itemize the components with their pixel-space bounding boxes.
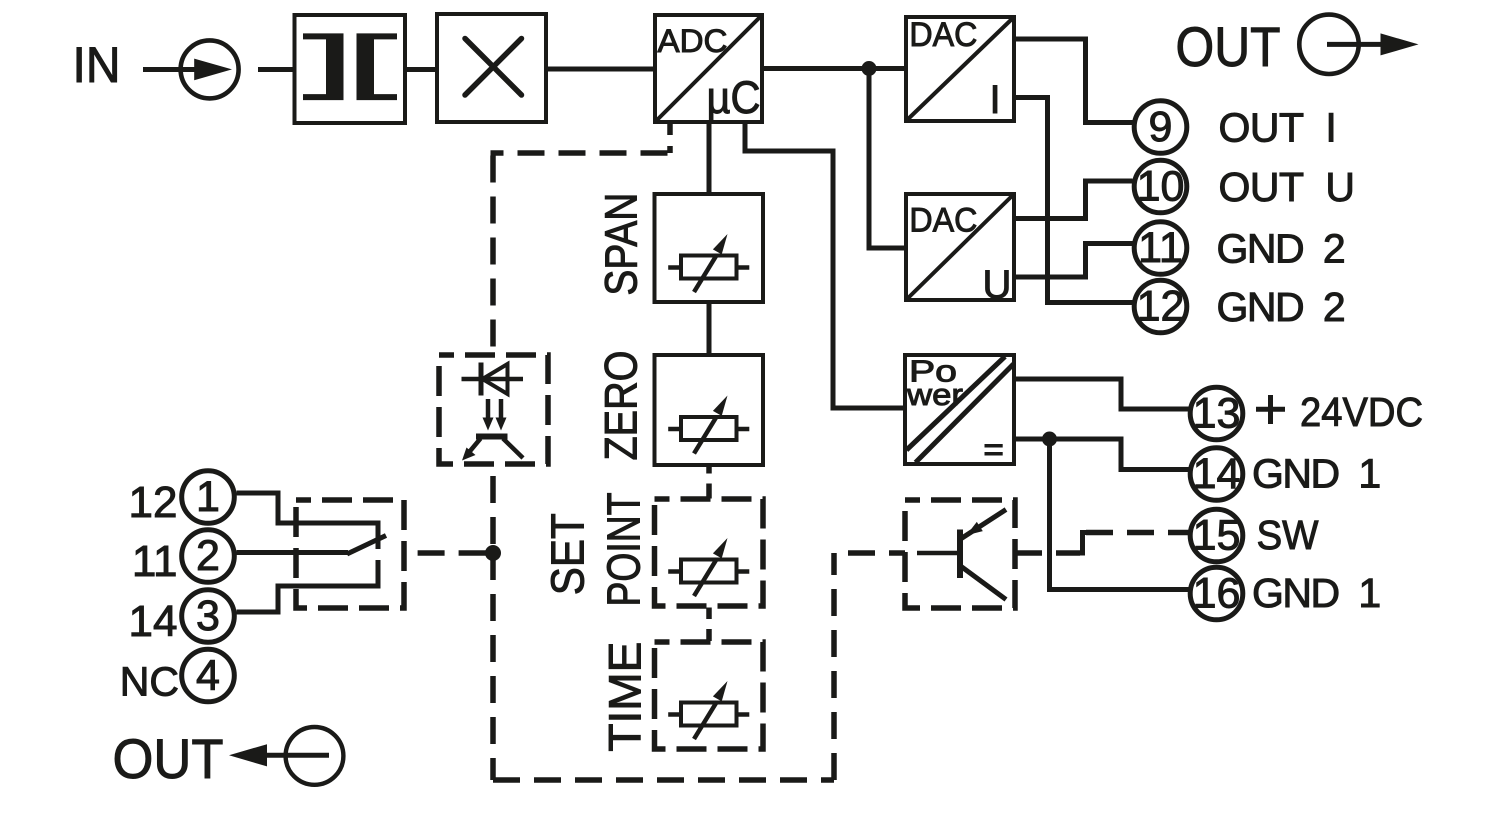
svg-text:OUT I: OUT I	[1219, 105, 1337, 151]
svg-text:DAC: DAC	[909, 202, 977, 240]
svg-text:POINT: POINT	[597, 493, 649, 607]
label TIME	[599, 642, 650, 752]
svg-text:NC: NC	[120, 659, 179, 705]
DAC I block	[906, 16, 1014, 122]
optocoupler	[439, 355, 548, 464]
svg-text:ADC: ADC	[658, 23, 728, 59]
svg-text:1: 1	[196, 473, 220, 521]
wire SET POINT to TIME (dashed)	[706, 608, 712, 643]
label GND 1 (14)	[1252, 451, 1380, 497]
label 14 for terminal 3	[129, 597, 178, 646]
label NC for terminal 4	[120, 659, 179, 705]
svg-text:ZERO: ZERO	[595, 351, 646, 461]
svg-text:U: U	[983, 263, 1012, 307]
dashed wire relay to junction B	[404, 550, 493, 556]
wire ADC to DAC I	[762, 66, 906, 71]
terminal 14	[1190, 448, 1243, 501]
relay output symbol (OUT bottom)	[229, 727, 343, 785]
label 24VDC	[1300, 389, 1423, 435]
svg-text:12: 12	[1137, 283, 1185, 331]
terminal 1	[182, 471, 235, 524]
label 11 for terminal 2	[132, 537, 178, 586]
terminal 4	[182, 649, 235, 702]
svg-text:wer: wer	[906, 377, 963, 412]
wire power to terminal 14	[1014, 439, 1189, 470]
svg-text:15: 15	[1193, 512, 1241, 560]
svg-text:SPAN: SPAN	[595, 193, 646, 296]
label POINT	[597, 493, 649, 607]
wire DAC U out to terminal 10	[1014, 181, 1133, 219]
terminal 15	[1190, 509, 1243, 562]
wire DAC I out to terminal 9	[1014, 39, 1133, 123]
label 12 for terminal 1	[129, 478, 178, 527]
label SPAN	[595, 193, 646, 296]
potentiometer SPAN block	[655, 194, 764, 302]
wire terminal 2 to relay	[237, 550, 313, 555]
dashed wire transistor to SW elbow	[1015, 550, 1080, 556]
dashed wire down to optocoupler	[490, 151, 496, 356]
svg-text:TIME: TIME	[599, 642, 650, 752]
dashed wire junction B down	[490, 553, 496, 780]
svg-text:10: 10	[1137, 163, 1185, 211]
wire node C to terminal 16	[1050, 439, 1189, 590]
wire node A to DAC U	[869, 69, 906, 249]
wire ADC to SPAN	[707, 122, 712, 195]
dashed wire optocoupler to junction	[490, 464, 496, 551]
svg-text:µC: µC	[707, 72, 761, 123]
svg-text:9: 9	[1149, 103, 1173, 151]
svg-text:16: 16	[1193, 570, 1241, 618]
svg-text:12: 12	[129, 478, 178, 527]
svg-text:13: 13	[1193, 390, 1241, 438]
current source symbol (IN)	[181, 40, 239, 98]
terminal 11	[1134, 222, 1187, 275]
dashed wire to switch transistor	[834, 550, 905, 556]
wire transformer to multiplier	[405, 67, 437, 72]
output source symbol (OUT top)	[1299, 15, 1418, 74]
switch transistor (open collector)	[905, 500, 1015, 608]
svg-text:IN: IN	[73, 37, 121, 93]
junction node B	[485, 545, 501, 561]
node OUT (top) label	[1176, 15, 1281, 78]
terminal 16	[1190, 567, 1243, 620]
svg-text:GND 1: GND 1	[1252, 570, 1380, 616]
svg-text:OUT U: OUT U	[1219, 164, 1355, 210]
wire ADC to power	[745, 122, 905, 408]
svg-text:DAC: DAC	[909, 16, 977, 54]
label GND 1 (16)	[1252, 570, 1380, 616]
dashed wire ADC down	[667, 122, 673, 153]
svg-text:3: 3	[196, 592, 220, 640]
svg-text:OUT: OUT	[1176, 15, 1281, 78]
svg-text:11: 11	[132, 537, 178, 586]
terminal 13	[1190, 387, 1243, 440]
wire power to terminal 13	[1014, 379, 1189, 409]
wire DAC U pin U to terminal 11	[1014, 244, 1133, 278]
wire source to transformer	[258, 67, 296, 72]
label GND 2 (11)	[1217, 226, 1345, 272]
potentiometer TIME block	[655, 642, 764, 749]
svg-text:2: 2	[196, 532, 220, 580]
svg-text:24VDC: 24VDC	[1300, 389, 1423, 435]
dashed wire left	[491, 150, 673, 156]
svg-text:14: 14	[129, 597, 178, 646]
wire SPAN to ZERO	[707, 302, 712, 355]
dashed wire bottom	[493, 777, 834, 783]
svg-text:I: I	[989, 78, 1000, 122]
svg-text:GND 2: GND 2	[1217, 226, 1345, 272]
wire multiplier to ADC	[546, 67, 655, 72]
wire terminal 3 to relay	[237, 586, 313, 612]
transformer isolation block	[295, 15, 406, 123]
label SW	[1257, 512, 1319, 558]
dashed wire elbow to terminal 15	[1086, 530, 1189, 536]
svg-text:SET: SET	[542, 513, 594, 595]
multiplier block	[437, 14, 546, 122]
label OUT U	[1219, 164, 1355, 210]
label SET	[542, 513, 594, 595]
wire terminal 1 to relay	[237, 493, 313, 523]
svg-text:14: 14	[1193, 450, 1241, 498]
label GND 2 (12)	[1217, 284, 1345, 330]
terminal 10	[1134, 160, 1187, 213]
svg-text:GND 2: GND 2	[1217, 284, 1345, 330]
wire DAC I pin I to terminal 12	[1014, 98, 1133, 303]
potentiometer SET POINT block	[655, 499, 764, 606]
node IN label	[73, 37, 121, 93]
node OUT (bottom) label	[113, 727, 224, 790]
svg-text:OUT: OUT	[113, 727, 224, 790]
svg-text:11: 11	[1138, 224, 1183, 272]
terminal 3	[182, 590, 235, 643]
svg-text:4: 4	[196, 652, 220, 700]
dashed wire up	[831, 553, 837, 780]
wire SW elbow	[1080, 533, 1086, 554]
terminal 9	[1134, 101, 1187, 154]
junction node C	[1042, 432, 1057, 447]
wire ZERO to SET POINT (dashed)	[706, 465, 712, 499]
terminal 2	[182, 530, 235, 583]
potentiometer ZERO block	[655, 355, 764, 465]
wire IN lead	[143, 67, 197, 72]
label OUT I	[1219, 105, 1337, 151]
svg-text:GND 1: GND 1	[1252, 451, 1380, 497]
junction node A	[862, 61, 877, 76]
DAC U block	[906, 194, 1014, 307]
relay changeover contact	[296, 500, 404, 608]
power supply block	[905, 353, 1014, 464]
ADC/uC block	[655, 15, 762, 123]
label ZERO	[595, 351, 646, 461]
plus sign for 24VDC	[1256, 395, 1285, 424]
terminal 12	[1134, 280, 1187, 333]
svg-text:SW: SW	[1257, 512, 1319, 558]
